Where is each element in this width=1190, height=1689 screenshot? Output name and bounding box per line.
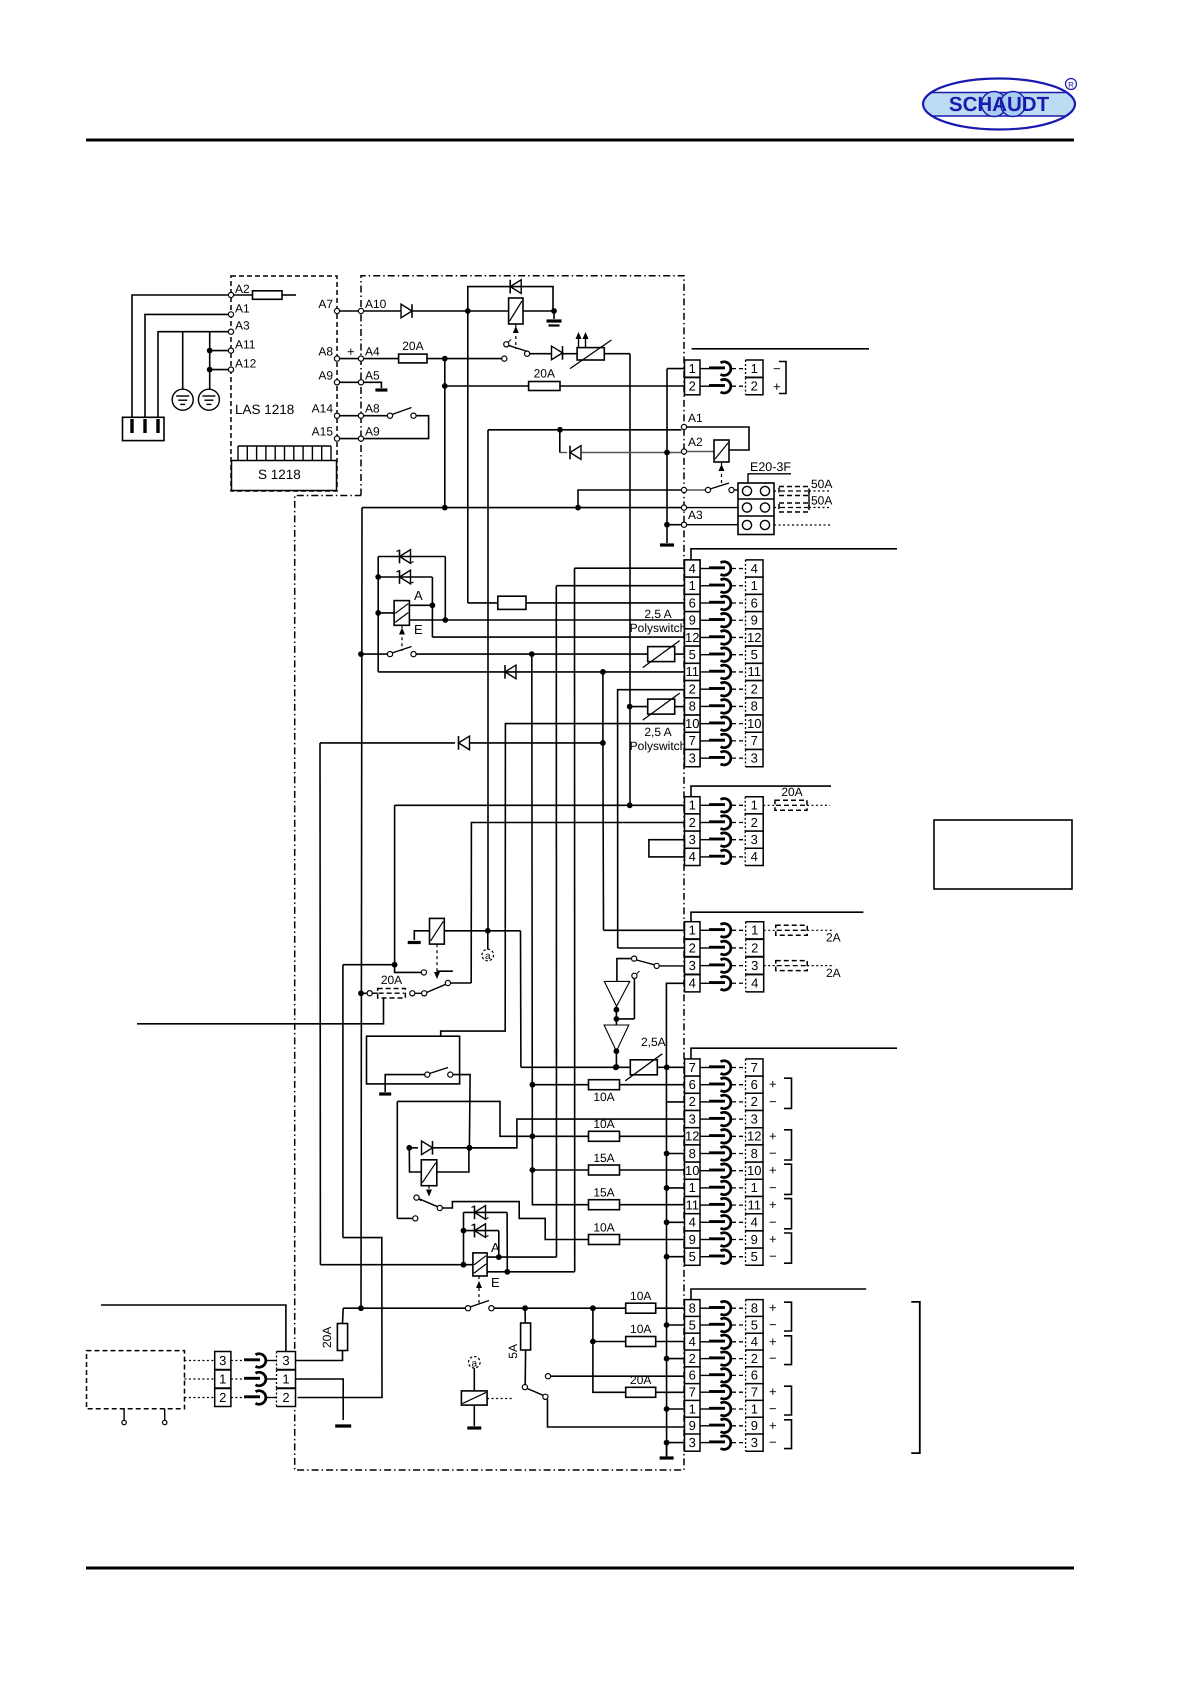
svg-text:a: a [472,1358,478,1369]
svg-text:2: 2 [689,940,696,955]
svg-text:A8: A8 [318,345,333,359]
svg-text:2: 2 [751,1351,758,1366]
svg-text:2A: 2A [826,931,841,945]
svg-text:A: A [414,588,423,603]
svg-text:2: 2 [689,815,696,830]
svg-text:10: 10 [747,1163,761,1178]
svg-text:12: 12 [685,1129,699,1144]
svg-text:A15: A15 [312,425,334,439]
svg-text:9: 9 [751,1232,758,1247]
svg-text:E20-3F: E20-3F [750,460,791,474]
svg-text:9: 9 [751,1418,758,1433]
svg-text:5: 5 [689,1249,696,1264]
svg-text:+: + [769,1128,777,1143]
svg-text:2: 2 [751,379,758,394]
svg-text:4: 4 [751,849,758,864]
svg-text:6: 6 [751,595,758,610]
svg-text:1: 1 [751,1180,758,1195]
svg-text:10A: 10A [630,1322,651,1336]
svg-text:+: + [769,1300,777,1315]
svg-text:A3: A3 [688,508,703,522]
svg-text:4: 4 [751,1334,758,1349]
svg-text:9: 9 [689,613,696,628]
svg-text:3: 3 [751,832,758,847]
svg-text:1: 1 [689,361,696,376]
svg-text:1: 1 [751,578,758,593]
svg-text:9: 9 [689,1418,696,1433]
svg-text:5A: 5A [506,1344,520,1359]
svg-text:7: 7 [751,1060,758,1075]
svg-text:4: 4 [751,976,758,991]
svg-text:7: 7 [689,1385,696,1400]
svg-text:4: 4 [689,976,696,991]
svg-text:6: 6 [751,1368,758,1383]
svg-text:8: 8 [751,699,758,714]
svg-text:2,5 A: 2,5 A [644,725,671,739]
svg-text:4: 4 [751,561,758,576]
svg-text:4: 4 [689,561,696,576]
svg-text:50A: 50A [811,477,832,491]
svg-text:7: 7 [751,733,758,748]
svg-text:+: + [773,379,781,394]
svg-text:4: 4 [689,849,696,864]
svg-text:11: 11 [686,664,700,679]
svg-text:10: 10 [747,716,761,731]
svg-text:10: 10 [685,1163,699,1178]
svg-text:1: 1 [689,923,696,938]
svg-text:6: 6 [689,595,696,610]
svg-text:2: 2 [282,1390,289,1405]
svg-text:1: 1 [751,798,758,813]
svg-text:A8: A8 [365,402,380,416]
svg-text:+: + [769,1163,777,1178]
svg-text:1: 1 [689,798,696,813]
svg-text:A9: A9 [318,368,333,382]
svg-text:1: 1 [689,1180,696,1195]
svg-text:15A: 15A [593,1151,614,1165]
svg-text:6: 6 [689,1368,696,1383]
svg-text:2: 2 [689,379,696,394]
svg-text:2: 2 [689,1094,696,1109]
svg-text:8: 8 [689,1301,696,1316]
svg-text:+: + [769,1232,777,1247]
svg-text:9: 9 [689,1232,696,1247]
svg-text:20A: 20A [781,785,802,799]
svg-text:−: − [769,1094,777,1109]
svg-text:3: 3 [751,958,758,973]
svg-text:2: 2 [219,1390,226,1405]
svg-text:A5: A5 [365,368,380,382]
svg-text:a: a [485,951,491,962]
svg-text:4: 4 [689,1215,696,1230]
svg-text:5: 5 [751,647,758,662]
svg-text:4: 4 [751,1215,758,1230]
svg-text:Polyswitch: Polyswitch [630,739,687,753]
svg-text:3: 3 [689,958,696,973]
svg-text:A14: A14 [312,402,334,416]
svg-text:1: 1 [689,578,696,593]
svg-text:−: − [769,1249,777,1264]
svg-text:11: 11 [686,1197,700,1212]
svg-text:2: 2 [689,1351,696,1366]
svg-text:Polyswitch: Polyswitch [630,621,687,635]
svg-text:9: 9 [751,613,758,628]
svg-text:3: 3 [751,1435,758,1450]
svg-text:3: 3 [689,832,696,847]
svg-text:1: 1 [282,1371,289,1386]
svg-text:11: 11 [748,1197,762,1212]
svg-text:2: 2 [751,681,758,696]
svg-text:2: 2 [689,681,696,696]
svg-text:12: 12 [747,1129,761,1144]
svg-text:1: 1 [689,1401,696,1416]
svg-text:8: 8 [689,699,696,714]
svg-text:R: R [1068,81,1074,90]
svg-text:8: 8 [751,1301,758,1316]
svg-text:20A: 20A [402,339,423,353]
svg-text:5: 5 [751,1249,758,1264]
svg-text:6: 6 [689,1077,696,1092]
svg-text:3: 3 [751,750,758,765]
svg-text:12: 12 [685,630,699,645]
svg-text:20A: 20A [320,1327,334,1348]
svg-text:2A: 2A [826,966,841,980]
svg-text:5: 5 [751,1317,758,1332]
svg-text:12: 12 [747,630,761,645]
svg-text:A7: A7 [318,297,333,311]
svg-text:−: − [769,1401,777,1416]
svg-text:1: 1 [751,361,758,376]
svg-text:+: + [769,1077,777,1092]
svg-text:2: 2 [751,1094,758,1109]
svg-text:A1: A1 [235,301,250,315]
svg-text:5: 5 [689,1317,696,1332]
svg-text:A9: A9 [365,425,380,439]
svg-text:SCHAUDT: SCHAUDT [949,93,1050,116]
svg-text:−: − [769,1317,777,1332]
svg-text:10A: 10A [593,1090,614,1104]
svg-text:LAS 1218: LAS 1218 [235,402,294,417]
svg-text:−: − [769,1214,777,1229]
svg-text:2: 2 [751,815,758,830]
svg-text:A11: A11 [235,338,256,352]
svg-text:A2: A2 [688,435,703,449]
svg-text:7: 7 [751,1385,758,1400]
svg-text:A4: A4 [365,345,380,359]
svg-text:6: 6 [751,1077,758,1092]
svg-text:2,5 A: 2,5 A [644,607,671,621]
svg-text:−: − [769,1180,777,1195]
svg-text:E: E [414,622,423,637]
svg-text:5: 5 [689,647,696,662]
svg-text:20A: 20A [630,1373,651,1387]
svg-text:7: 7 [689,733,696,748]
svg-text:1: 1 [219,1371,226,1386]
svg-text:7: 7 [689,1060,696,1075]
svg-text:A2: A2 [235,282,250,296]
svg-text:10A: 10A [593,1221,614,1235]
svg-text:−: − [773,361,781,376]
svg-text:50A: 50A [811,494,832,508]
svg-text:11: 11 [748,664,762,679]
svg-text:4: 4 [689,1334,696,1349]
svg-text:−: − [769,1146,777,1161]
svg-text:3: 3 [282,1353,289,1368]
svg-text:3: 3 [689,1435,696,1450]
svg-text:2,5A: 2,5A [641,1035,666,1049]
svg-text:10A: 10A [630,1289,651,1303]
svg-text:−: − [769,1351,777,1366]
svg-text:3: 3 [689,1111,696,1126]
svg-text:+: + [769,1334,777,1349]
svg-text:8: 8 [689,1146,696,1161]
svg-text:2: 2 [751,940,758,955]
svg-text:+: + [769,1197,777,1212]
svg-text:+: + [769,1418,777,1433]
svg-text:15A: 15A [593,1186,614,1200]
svg-text:A1: A1 [688,411,703,425]
svg-text:20A: 20A [534,367,555,381]
svg-text:20A: 20A [381,973,402,987]
svg-text:A12: A12 [235,357,257,371]
svg-text:3: 3 [689,750,696,765]
svg-text:E: E [491,1275,500,1290]
svg-text:3: 3 [751,1111,758,1126]
svg-text:+: + [347,344,355,359]
svg-text:1: 1 [751,923,758,938]
svg-text:1: 1 [751,1401,758,1416]
svg-text:−: − [769,1435,777,1450]
svg-text:+: + [769,1384,777,1399]
svg-text:A10: A10 [365,297,387,311]
svg-text:S 1218: S 1218 [258,467,301,482]
svg-text:10: 10 [685,716,699,731]
svg-text:8: 8 [751,1146,758,1161]
svg-text:3: 3 [219,1353,226,1368]
svg-text:A3: A3 [235,319,250,333]
